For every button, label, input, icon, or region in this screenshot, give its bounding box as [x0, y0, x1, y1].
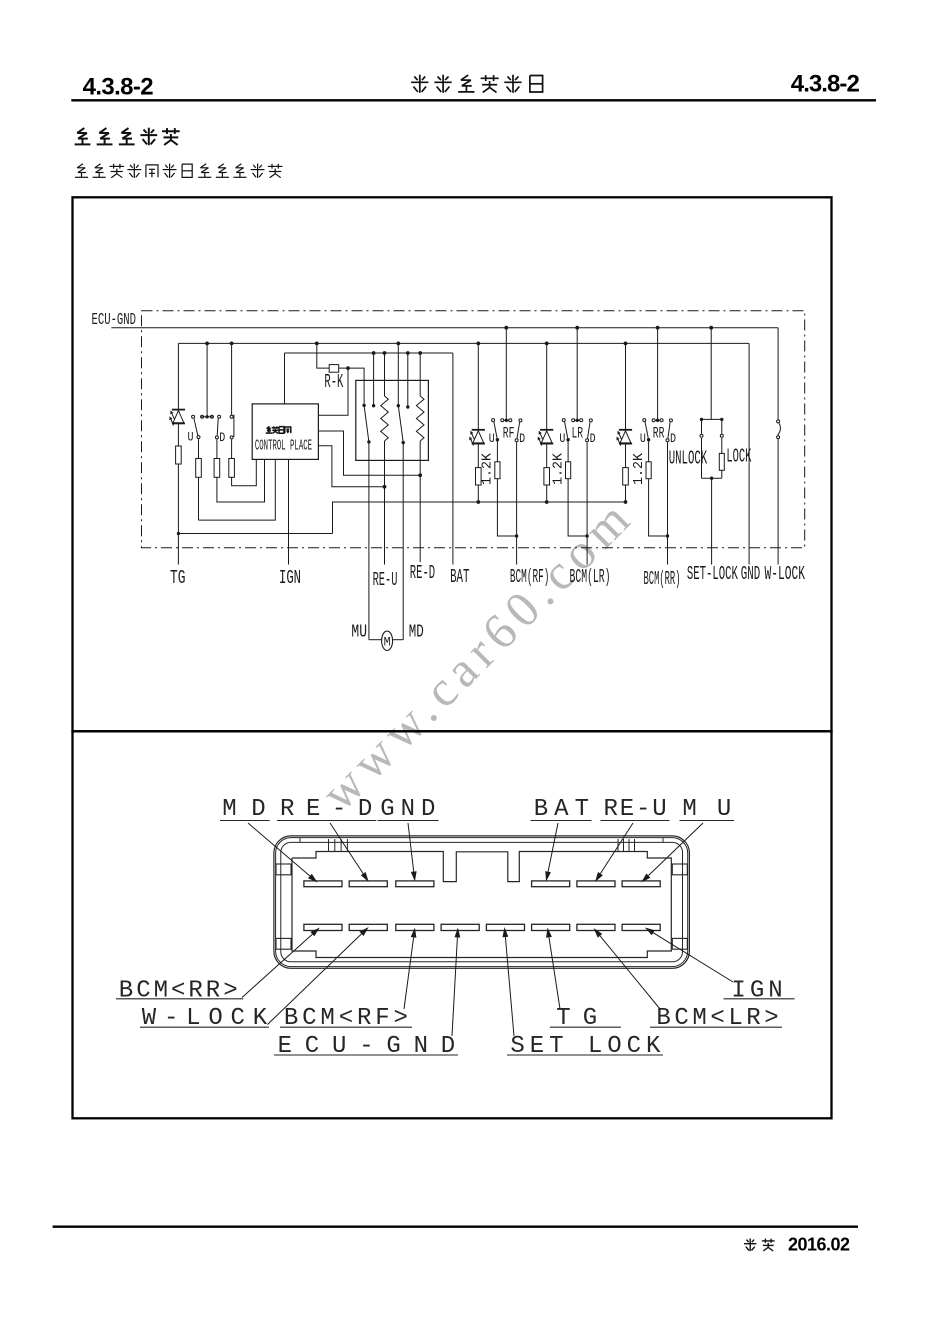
resistor lock series	[719, 453, 724, 470]
wire U1 right pin1	[318, 368, 348, 415]
wire lock switch feed	[710, 328, 712, 420]
node lock top right	[720, 418, 723, 421]
resistor RR LED ballast	[623, 468, 629, 485]
wire BAT rail	[285, 352, 453, 354]
node K1 contact	[372, 404, 375, 407]
svg-text:BCM<LR>: BCM<LR>	[656, 1005, 778, 1032]
svg-text:RE-D: RE-D	[410, 562, 435, 584]
node K2 bus2	[396, 342, 400, 346]
node K1 arm bottom	[367, 440, 370, 443]
header title 全车电动开关	[419, 75, 421, 93]
svg-text:D: D	[219, 431, 225, 445]
connector pin GND	[396, 881, 434, 887]
svg-text:RE-U: RE-U	[604, 796, 667, 823]
switch RF D moving contact	[515, 439, 518, 442]
section title 线路原理图	[77, 128, 84, 133]
switch LR U arm	[565, 422, 568, 438]
motor M1	[382, 631, 393, 650]
connector shell tick right	[662, 838, 664, 843]
node SET-LOCK tap	[710, 477, 713, 480]
wire ground return bottom	[178, 533, 332, 535]
resistor RF LED ballast	[476, 468, 482, 485]
svg-text:LR: LR	[572, 424, 584, 442]
switch RF U arm	[494, 422, 497, 438]
node LR LED bus2	[545, 342, 549, 346]
wire LR LED to resistor	[546, 444, 548, 468]
node RR ground line	[624, 500, 628, 504]
LED LR indicator	[540, 429, 553, 431]
common LR contact right	[580, 419, 583, 422]
leader arrow bottom BCM(RF)	[404, 937, 414, 1009]
wire TG vertical	[177, 464, 179, 565]
wire LR resistor to ground line	[546, 485, 548, 502]
node LR ground line	[545, 500, 549, 504]
connector inner shell	[281, 842, 683, 961]
connector pin ECU-GND	[441, 924, 479, 930]
wire LR U to 1.2K	[567, 440, 569, 462]
switch RR D arm	[668, 422, 670, 438]
control module label 控制模块	[267, 426, 270, 428]
connector cavity outline	[292, 852, 671, 958]
node RF BCM junction	[515, 534, 518, 537]
wire LED ground return riser	[333, 502, 626, 534]
wire RF LED feed	[477, 343, 479, 429]
wire switch S3 feed	[231, 343, 233, 414]
wire RF U jog to BCM	[497, 479, 516, 536]
connector pin BAT	[532, 881, 570, 887]
leader arrow top RE-U	[600, 823, 633, 874]
svg-text:MU: MU	[351, 623, 367, 643]
wire GND line	[748, 343, 750, 564]
connector pin MU	[622, 881, 660, 887]
svg-text:4.3.8-2: 4.3.8-2	[791, 71, 860, 98]
resistor RR 1.2K	[646, 462, 651, 479]
connector pin BCM(LR)	[577, 924, 615, 930]
svg-text:BAT: BAT	[534, 796, 589, 823]
wire RR common to ECU-GND bus	[657, 328, 659, 421]
connector shell tick left	[299, 838, 301, 843]
svg-text:BCM<RF>: BCM<RF>	[284, 1005, 408, 1032]
node LR common	[576, 419, 579, 422]
svg-text:W-LOCK: W-LOCK	[765, 563, 806, 585]
leader arrow top MU	[648, 823, 703, 876]
wire RR BCM line	[667, 442, 669, 564]
svg-text:RE-U: RE-U	[373, 569, 398, 591]
connector pin IGN	[622, 924, 660, 930]
switch RR D fixed contact	[669, 419, 672, 422]
node lock top left	[700, 418, 703, 421]
svg-text:RR: RR	[653, 424, 665, 442]
svg-text:M: M	[384, 634, 391, 649]
wire RF LED to resistor	[477, 444, 479, 468]
common RR contact left	[652, 419, 655, 422]
svg-text:IGN: IGN	[731, 978, 782, 1005]
node RZ2 top	[418, 351, 422, 355]
wire motor bottom right	[393, 639, 404, 641]
node RR common bus1	[656, 326, 660, 330]
connector outer shell	[274, 836, 690, 968]
wire master common up	[206, 343, 208, 416]
wire unlock side upper	[701, 419, 703, 433]
svg-text:BCM(LR): BCM(LR)	[570, 566, 611, 588]
svg-text:U: U	[640, 432, 646, 446]
resistor R1	[176, 446, 182, 464]
switch D arm	[217, 419, 218, 436]
node S3 bus2	[230, 342, 234, 346]
wire RR U jog to BCM	[649, 479, 668, 536]
connector pin W-LOCK	[349, 924, 387, 930]
switch LR D fixed contact	[589, 419, 592, 422]
svg-text:IGN: IGN	[279, 567, 301, 589]
wire U1 right pin2 to RE-D node	[318, 431, 420, 475]
lock switch bottom bar	[702, 477, 722, 479]
wire U1 right pin3 to RE-U node	[318, 446, 384, 487]
node RF LED bus2	[476, 342, 480, 346]
wire TG LED feed	[177, 343, 179, 409]
common RF bar	[504, 419, 508, 421]
wire R-K to relay box	[339, 368, 364, 405]
resistor RZ1 (coil)	[384, 353, 386, 396]
wire RF common to ECU-GND bus	[505, 328, 507, 421]
leader arrow bottom W-LOCK	[268, 934, 362, 1025]
wire motor left	[368, 442, 370, 640]
node K1 feed	[372, 351, 376, 355]
header rule	[71, 99, 876, 101]
node RR common	[656, 419, 659, 422]
connector pin RE-U	[577, 881, 615, 887]
wire U to R2	[198, 439, 200, 458]
switch U arm	[194, 419, 198, 436]
resistor LR LED ballast	[544, 468, 550, 485]
wire D1 to R1	[177, 423, 179, 446]
common LR contact left	[572, 419, 575, 422]
connector outer shell inner line	[276, 838, 688, 967]
footer 逸动	[749, 1238, 751, 1251]
node master common	[205, 415, 208, 418]
svg-text:MD: MD	[409, 623, 424, 643]
relay drive box	[356, 380, 429, 460]
wire unlock side lower	[701, 438, 703, 478]
switch RF D fixed contact	[519, 419, 522, 422]
switch S3 bottom contact	[230, 436, 233, 439]
wire LR common to ECU-GND bus	[576, 328, 578, 421]
wire motor bottom left	[369, 639, 382, 641]
wire SET-LOCK stub	[711, 478, 713, 564]
connector hatch right	[617, 839, 619, 852]
leader arrow top MD	[248, 823, 310, 876]
common RF contact left	[501, 419, 504, 422]
leader arrow bottom SET LOCK	[505, 937, 514, 1036]
switch D (master down) fixed contact	[218, 415, 221, 418]
node RE-U junction	[383, 485, 387, 489]
master common contact left	[201, 415, 204, 418]
connector pin BCM(RF)	[396, 924, 434, 930]
connector pin SET LOCK	[486, 924, 524, 930]
svg-text:D: D	[590, 432, 596, 446]
wire RF resistor to ground line	[477, 485, 479, 502]
wire ECU-GND bus (bus1)	[111, 327, 778, 329]
node K2 feed	[406, 351, 410, 355]
node LR common bus1	[575, 326, 579, 330]
node lock feed bus1	[709, 326, 713, 330]
node K2 pivot	[397, 404, 400, 407]
switch RF D arm	[517, 422, 520, 438]
resistor LR 1.2K	[566, 462, 571, 479]
connector hatch left	[328, 839, 330, 852]
leader arrow top GND	[408, 823, 414, 872]
resistor RZ2 (coil)	[419, 353, 421, 396]
node K1 pivot	[362, 404, 365, 407]
common RR contact right	[660, 419, 663, 422]
connector pin RE-D	[349, 881, 387, 887]
svg-text:BCM(RF): BCM(RF)	[510, 566, 550, 588]
resistor R-K	[329, 365, 339, 373]
master common bar	[200, 416, 214, 418]
switch RF U fixed contact	[492, 419, 495, 422]
wire IGN from U1	[288, 459, 290, 564]
lock switch top bar	[702, 418, 722, 420]
switch LR U fixed contact	[562, 419, 565, 422]
node R-K junction	[346, 366, 350, 370]
switch W-LOCK top contact	[777, 420, 780, 423]
wire R4 down line A	[232, 459, 257, 485]
connector frame box2	[73, 731, 832, 1118]
svg-text:1.2K: 1.2K	[631, 452, 647, 485]
switch LR D arm	[588, 422, 591, 438]
wire RR U to 1.2K	[648, 440, 650, 462]
node RE-D junction	[418, 473, 422, 477]
switch UNLOCK contact	[700, 434, 703, 437]
svg-text:R-K: R-K	[324, 371, 343, 393]
wire switch K2 feed	[397, 343, 399, 405]
node RF common bus1	[504, 326, 508, 330]
footer rule	[53, 1225, 858, 1227]
wire GND rail (bus2)	[178, 342, 749, 344]
switch U (master up) fixed contact	[192, 415, 195, 418]
wire RF U to 1.2K	[496, 440, 498, 462]
wire W-LOCK feed	[777, 328, 779, 420]
node LR BCM junction	[585, 534, 588, 537]
master common contact right	[210, 415, 213, 418]
node K2 arm bottom	[402, 441, 405, 444]
LED RR indicator	[619, 429, 632, 431]
wire W-LOCK stub	[777, 439, 779, 564]
connector pin MD	[304, 881, 342, 887]
wire U1 top pin to BAT rail	[284, 353, 286, 404]
svg-text:U: U	[489, 432, 495, 446]
node R-K bus2	[315, 342, 319, 346]
svg-text:TG: TG	[170, 567, 186, 589]
relay switch arm K2	[398, 406, 403, 443]
svg-text:D: D	[670, 432, 676, 446]
switch S3 top contact	[230, 415, 233, 418]
svg-text:LOCK: LOCK	[726, 446, 751, 468]
wire R3 down line B	[217, 459, 265, 502]
wire BAT stub	[452, 353, 454, 565]
svg-text:UNLOCK: UNLOCK	[669, 447, 708, 469]
leader arrow top RE-D	[330, 823, 363, 874]
common RF contact right	[509, 419, 512, 422]
wire LR LED feed	[546, 343, 548, 429]
node TG corner	[177, 532, 180, 535]
svg-text:1.2K: 1.2K	[480, 452, 496, 485]
switch RR D moving contact	[666, 439, 669, 442]
connector key tab left	[276, 864, 291, 875]
wire R-K feed from bus2	[317, 343, 329, 368]
wire LR BCM line	[586, 442, 588, 564]
wire lock resistor down	[721, 470, 723, 478]
resistor R2	[196, 459, 202, 478]
LED RF indicator	[472, 429, 485, 431]
wire lock to resistor	[721, 438, 723, 453]
switch W-LOCK bottom contact	[777, 436, 780, 439]
svg-text:2016.02: 2016.02	[788, 1235, 850, 1255]
node K2 contact	[406, 405, 409, 408]
connector pin BCM(RR)	[304, 924, 342, 930]
wire RR LED to resistor	[625, 444, 627, 468]
resistor RF 1.2K	[495, 462, 500, 479]
connector key tab left lower	[276, 938, 291, 949]
svg-text:U: U	[559, 432, 565, 446]
leader arrow bottom BCM(RR)	[242, 934, 312, 997]
node RF common	[505, 419, 508, 422]
wire R2 down	[198, 477, 200, 520]
resistor R4	[229, 459, 235, 478]
leader arrow bottom BCM(LR)	[600, 936, 660, 1009]
node RF ground line	[476, 500, 480, 504]
svg-text:BAT: BAT	[450, 566, 469, 588]
svg-text:1.2K: 1.2K	[551, 452, 567, 485]
switch RR U fixed contact	[643, 419, 646, 422]
svg-text:SET-LOCK: SET-LOCK	[687, 563, 738, 585]
wire D to R3	[216, 439, 218, 458]
wire RE-D stub	[419, 475, 421, 562]
ECU boundary dash-dot box	[142, 311, 805, 548]
node RR LED bus2	[624, 342, 628, 346]
switch W-LOCK arm	[778, 423, 781, 435]
common RR bar	[655, 419, 659, 421]
LED D1 (window-up indicator)	[172, 409, 185, 411]
schematic frame box1	[73, 197, 832, 731]
connector key tab right	[672, 864, 687, 875]
leader arrow bottom TG	[549, 937, 560, 1009]
wire RR resistor to ground line	[625, 485, 627, 502]
wire line C	[199, 459, 276, 520]
wire RE-U stub	[384, 487, 386, 565]
svg-text:U: U	[188, 431, 194, 445]
switch D moving contact	[215, 436, 218, 439]
svg-text:D: D	[519, 432, 525, 446]
switch U moving contact	[197, 436, 200, 439]
wire contact K1 feed	[373, 353, 375, 406]
control module U1 box	[252, 404, 318, 460]
resistor R3	[214, 459, 220, 478]
switch S3 arm (closed)	[233, 415, 235, 438]
node LR U moving	[566, 438, 569, 441]
leader arrow bottom IGN	[653, 933, 733, 982]
node RR U moving	[647, 438, 650, 441]
wire RF BCM line	[516, 442, 518, 564]
svg-text:4.3.8-2: 4.3.8-2	[83, 74, 154, 101]
node RR BCM junction	[666, 534, 669, 537]
relay switch arm K1	[364, 405, 369, 442]
wire S3 to R4	[231, 439, 233, 458]
connector pin TG	[532, 924, 570, 930]
svg-text:GND: GND	[380, 796, 435, 823]
svg-text:BCM<RR>: BCM<RR>	[119, 978, 238, 1005]
svg-text:RF: RF	[503, 424, 515, 442]
switch LOCK contact	[720, 434, 723, 437]
svg-text:CONTROL PLACE: CONTROL PLACE	[255, 437, 312, 454]
subtitle 主电动车窗开关线路原理图	[77, 164, 83, 168]
wire RR LED feed	[625, 343, 627, 429]
leader arrow top BAT	[548, 823, 558, 872]
wire contact K2 feed	[407, 353, 409, 407]
wire LR U jog to BCM	[568, 479, 587, 536]
wire motor right	[402, 443, 404, 640]
connector key tab right lower	[672, 938, 687, 949]
common LR bar	[575, 419, 579, 421]
node master common bus2	[205, 342, 209, 346]
switch RR U arm	[645, 422, 648, 438]
wire lock side upper	[721, 419, 723, 433]
switch LR D moving contact	[586, 439, 589, 442]
svg-text:BCM(RR): BCM(RR)	[644, 568, 681, 590]
node RZ1 top	[383, 351, 387, 355]
leader arrow bottom ECU-GND	[452, 938, 457, 1037]
node RF U moving	[496, 438, 499, 441]
svg-text:GND: GND	[741, 563, 760, 585]
